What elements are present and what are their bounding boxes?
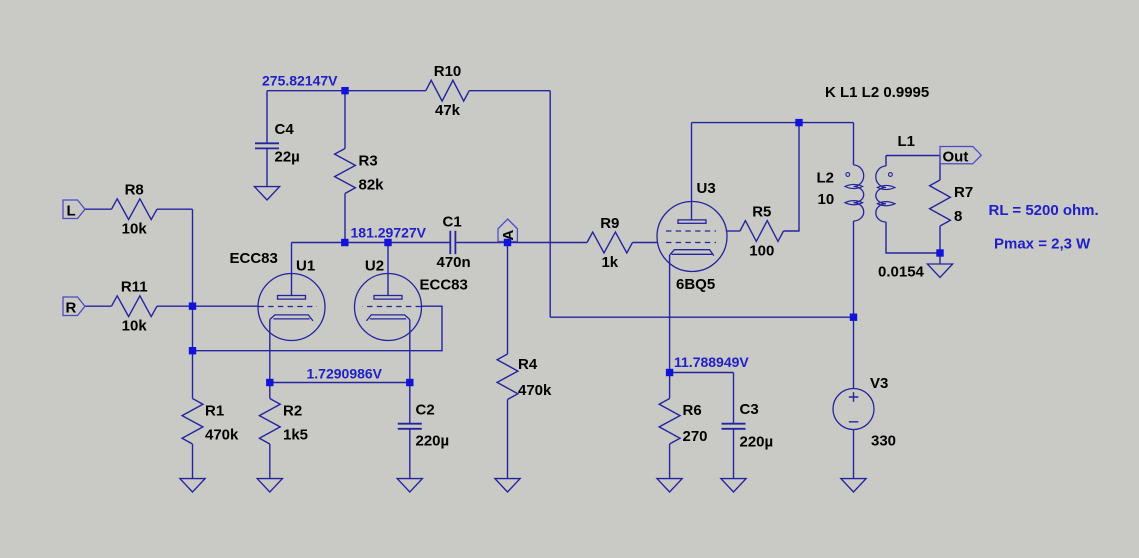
wire L1 to Out port [886,155,940,157]
svg-text:270: 270 [683,428,708,445]
wire U3 anode to node [692,122,800,124]
inductor L2 (transformer primary) [817,165,864,221]
svg-text:1k5: 1k5 [283,427,308,444]
svg-text:10k: 10k [122,221,148,238]
wire U1 cathode lead [269,320,271,383]
svg-text:U2: U2 [365,258,384,275]
wire R2 bottom lead [269,444,271,479]
node junction [341,239,348,246]
wire U2 cathode lead [409,320,411,383]
ground R4 [495,479,520,492]
port Out [940,147,981,166]
svg-text:C4: C4 [275,121,295,138]
node junction [504,239,511,246]
svg-text:10: 10 [818,191,835,208]
wire R3 top lead [344,91,346,149]
ground C3 [721,479,746,492]
svg-text:11.788949V: 11.788949V [674,354,749,370]
svg-text:R2: R2 [283,403,302,420]
wire C4 bottom lead [266,149,268,187]
wire C3 bottom lead [733,429,735,478]
svg-text:R7: R7 [954,184,973,201]
annotation RL [989,202,1099,219]
svg-text:47k: 47k [435,102,461,119]
ground V3 [841,479,866,492]
svg-text:22µ: 22µ [275,149,300,166]
svg-text:6BQ5: 6BQ5 [676,276,715,293]
resistor R5 [740,203,784,259]
svg-text:R1: R1 [205,403,224,420]
wire C3 top lead [733,373,735,424]
ground C4 [254,187,279,200]
node junction [341,87,348,94]
wire L1 top lead [885,156,887,167]
triode U1 (ECC83) [258,258,325,341]
node voltage 11.788949V [674,354,749,370]
svg-text:82k: 82k [359,177,385,194]
resistor R10 [426,63,469,119]
wire R8 to rail [157,208,193,210]
svg-text:R11: R11 [121,279,148,296]
svg-text:L2: L2 [817,170,835,187]
wire B+ rail left [267,90,345,92]
wire C2 top lead [409,383,411,424]
svg-text:8: 8 [954,208,962,225]
resistor R3 [335,149,385,194]
svg-text:R4: R4 [518,356,538,373]
annotation Pmax [994,236,1091,253]
svg-text:275.82147V: 275.82147V [262,73,338,89]
resistor R11 [112,279,158,335]
node junction [406,379,413,386]
pentode U3 (6BQ5) [657,180,727,293]
wire L port to R8 [85,208,112,210]
svg-text:220µ: 220µ [416,433,450,450]
svg-text:C3: C3 [740,401,759,418]
label ECC83 for U2 [420,277,468,294]
svg-text:L1: L1 [898,133,916,150]
wire R7 bottom lead [939,226,941,253]
capacitor C2 [398,402,449,450]
svg-text:ECC83: ECC83 [420,277,468,294]
wire U2 plate lead [387,243,389,296]
wire U3 cathode lead [669,255,671,373]
node voltage 1.7290986V [307,366,383,382]
ground C2 [397,479,422,492]
wire R11 to node [157,305,193,307]
svg-text:470k: 470k [205,427,239,444]
wire L2 top lead [853,123,855,165]
wire R6 bottom lead [669,444,671,479]
ground R6 [657,479,682,492]
node junction [666,369,673,376]
wire R3 bottom lead [344,194,346,243]
svg-text:1k: 1k [601,254,618,271]
wire C1 to R9 [456,242,587,244]
node junction [384,239,391,246]
node junction [266,379,273,386]
label K coupling [825,84,929,101]
wire anode rail to C1 [292,242,450,244]
wire U2 grid return [193,306,443,351]
wire U3 screen to R5 [726,230,740,232]
resistor R1 [182,399,239,445]
svg-text:R5: R5 [752,203,771,220]
svg-text:R6: R6 [683,402,702,419]
svg-text:R10: R10 [434,63,462,80]
resistor R9 [587,215,633,271]
wire node to L2 [799,122,854,124]
svg-text:Out: Out [943,149,969,166]
capacitor C1 [437,214,471,272]
node junction [936,249,943,256]
wire C4 top lead [266,91,268,143]
wire L2 bottom lead [853,221,855,317]
capacitor C3 [722,401,774,451]
resistor R6 [659,399,707,446]
svg-text:C2: C2 [416,402,435,419]
wire R port to R11 [85,305,112,307]
wire cathode node to C3 [670,372,734,374]
port R (input) [63,297,85,316]
node junction [850,314,857,321]
node junction [795,119,802,126]
svg-text:R9: R9 [600,215,619,232]
svg-text:1.7290986V: 1.7290986V [307,366,383,382]
svg-text:0.0154: 0.0154 [878,264,925,281]
label ECC83 for U1 [230,250,278,267]
resistor R8 [112,182,158,238]
node voltage 181.29727V [351,225,427,241]
wire horizontal B+ feed to V3 node [550,316,853,318]
wire R5 to node [784,123,800,231]
inductor L1 (transformer secondary) [876,133,915,222]
ground R7 [927,264,952,277]
voltage source V3 [833,375,896,450]
wire vertical B+ feed [549,91,551,318]
svg-text:Pmax = 2,3 W: Pmax = 2,3 W [994,236,1091,253]
wire R1 bottom lead [192,444,194,479]
label 0.0154 [878,264,925,281]
wire R10 to corner [469,90,550,92]
wire node to R10 [345,90,426,92]
wire input rail vertical [192,209,194,398]
node voltage 275.82147V [262,73,338,89]
wire node to U1 grid [193,305,258,307]
svg-text:U3: U3 [697,180,716,197]
svg-text:R: R [66,299,77,316]
wire V3 bottom lead [853,430,855,479]
wire Out to R7 [939,156,941,181]
resistor R7 [930,180,974,226]
wire A node to R4 [507,243,509,355]
svg-text:330: 330 [871,433,896,450]
wire R6 top lead [669,373,671,399]
svg-text:220µ: 220µ [740,434,774,451]
svg-text:470k: 470k [518,382,552,399]
node junction [189,303,196,310]
wire V3 top lead [853,317,855,388]
wire U3 plate lead [691,123,693,220]
wire cathode rail [270,382,410,384]
svg-text:ECC83: ECC83 [230,250,278,267]
wire R9 to U3 grid [633,242,658,244]
wire U1 plate lead [291,243,293,296]
triode U2 (ECC83) [355,258,422,341]
port L (input) [63,200,85,219]
svg-text:V3: V3 [870,375,888,392]
svg-text:L: L [67,202,76,219]
svg-text:C1: C1 [443,214,462,231]
resistor R4 [497,354,552,400]
wire L1 bottom lead [886,222,940,253]
svg-text:K L1 L2 0.9995: K L1 L2 0.9995 [825,84,929,101]
svg-text:100: 100 [749,242,774,259]
wire C2 bottom lead [409,429,411,478]
ground R1 [180,479,205,492]
svg-text:181.29727V: 181.29727V [351,225,427,241]
wire R2 top lead [269,383,271,399]
resistor R2 [259,399,308,445]
svg-text:470n: 470n [437,254,471,271]
svg-text:10k: 10k [122,318,148,335]
svg-text:RL = 5200 ohm.: RL = 5200 ohm. [989,202,1099,219]
wire R7 node to ground [939,253,941,264]
wire R4 to ground [507,400,509,479]
capacitor C4 [255,121,300,166]
node junction [189,347,196,354]
svg-text:U1: U1 [296,258,315,275]
svg-text:R3: R3 [359,153,378,170]
svg-text:R8: R8 [125,182,144,199]
ground R2 [257,479,282,492]
port A (node) [498,219,517,242]
